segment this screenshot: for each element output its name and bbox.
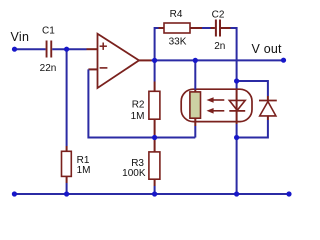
wire output node up to R4 bbox=[155, 27, 164, 60]
wire C1 to op-amp non-inverting input bbox=[52, 48, 97, 50]
svg-text:C2: C2 bbox=[212, 10, 225, 21]
wire op-amp output pin bbox=[139, 59, 152, 61]
node rail R3 junction bbox=[152, 191, 157, 196]
wire LDR bottom pin down to feedback wire bbox=[194, 118, 196, 137]
wire diode branch top bbox=[237, 81, 268, 96]
wire LDR top pin to output node bbox=[194, 60, 196, 92]
svg-text:22n: 22n bbox=[40, 63, 57, 74]
node rail right terminal bbox=[286, 191, 291, 196]
wire R3 to ground rail bbox=[154, 179, 156, 194]
wire feedback node down to R3 (pin) bbox=[154, 138, 156, 152]
node feedback junction (R2/R3) bbox=[152, 135, 157, 140]
svg-text:Vin: Vin bbox=[11, 30, 30, 44]
diode D1 bbox=[259, 96, 277, 120]
optocoupler U2 body bbox=[181, 89, 252, 121]
wire R2 top pin up to output node bbox=[154, 60, 156, 91]
wire Vin to C1 bbox=[15, 48, 46, 50]
node LED bottom junction bbox=[234, 135, 239, 140]
node LED top junction bbox=[234, 78, 239, 83]
svg-text:2n: 2n bbox=[214, 41, 225, 52]
node output junction (LDR) bbox=[193, 58, 198, 63]
capacitor C2 bbox=[212, 10, 226, 52]
arrow 1 (light coupling) bbox=[207, 97, 225, 103]
arrow 2 (light coupling) bbox=[207, 108, 225, 114]
svg-text:33K: 33K bbox=[169, 37, 187, 48]
wire C1 junction down to R1 bbox=[66, 49, 68, 151]
node C1 junction bbox=[64, 47, 69, 52]
wire output to V out bbox=[152, 59, 284, 61]
svg-text:1M: 1M bbox=[131, 111, 145, 122]
LED element of U2 bbox=[229, 100, 245, 111]
node rail left terminal bbox=[12, 191, 17, 196]
node rail LED junction bbox=[234, 191, 239, 196]
wire feedback node up to R2 (pin) bbox=[154, 119, 156, 137]
wire inverting input down and right to feedback node bbox=[88, 69, 195, 137]
resistor R2 bbox=[131, 91, 160, 122]
node Vin terminal bbox=[12, 47, 17, 52]
wire diode branch bottom bbox=[237, 120, 268, 138]
resistor R1 bbox=[62, 151, 91, 176]
svg-text:C1: C1 bbox=[42, 26, 55, 37]
node rail R1 junction bbox=[64, 191, 69, 196]
svg-text:R2: R2 bbox=[132, 99, 145, 110]
svg-text:1M: 1M bbox=[77, 165, 91, 176]
wire R1 to ground rail bbox=[66, 176, 68, 194]
wire C2 right to corner and down to ground rail bbox=[221, 28, 237, 194]
resistor R3 bbox=[122, 152, 160, 179]
node output junction (R4/R2) bbox=[152, 58, 157, 63]
LDR element of U2 bbox=[190, 92, 201, 118]
wire op-amp inverting input pin bbox=[88, 68, 97, 70]
wire R4 to C2 bbox=[190, 27, 215, 29]
svg-text:100K: 100K bbox=[122, 168, 146, 179]
resistor R4 bbox=[164, 9, 190, 48]
ground rail wire bbox=[14, 193, 289, 195]
node V out terminal bbox=[281, 58, 286, 63]
capacitor C1 bbox=[40, 26, 57, 75]
op-amp U1 bbox=[98, 34, 140, 88]
svg-text:R4: R4 bbox=[170, 9, 183, 20]
svg-text:V out: V out bbox=[252, 42, 283, 56]
